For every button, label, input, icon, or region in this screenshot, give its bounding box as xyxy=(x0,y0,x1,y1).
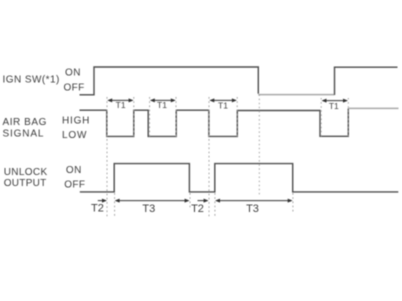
svg-text:OFF: OFF xyxy=(64,82,85,93)
dashed vertical below unlock second rise x=214.9 xyxy=(214,193,216,217)
svg-text:ON: ON xyxy=(65,67,81,78)
svg-text:IGN SW(*1): IGN SW(*1) xyxy=(3,75,60,86)
svg-text:T1: T1 xyxy=(218,100,228,110)
wire IGN SW second rise and ON level xyxy=(335,67,398,95)
svg-text:T3: T3 xyxy=(142,203,155,215)
T1 arrow 1 xyxy=(107,98,133,102)
svg-text:T1: T1 xyxy=(157,100,167,110)
svg-text:SIGNAL: SIGNAL xyxy=(3,129,45,140)
svg-text:T3: T3 xyxy=(246,203,259,215)
svg-text:T1: T1 xyxy=(116,100,126,110)
svg-text:OUTPUT: OUTPUT xyxy=(4,178,47,189)
T1 arrow 2 xyxy=(150,98,176,102)
svg-text:AIR BAG: AIR BAG xyxy=(3,117,47,128)
dashed vertical at third pulse left x=209 xyxy=(208,97,210,217)
dashed vertical at second pulse right x=176 xyxy=(175,97,177,139)
dashed vertical at second pulse left x=149.6 xyxy=(149,97,151,139)
T2 arrow 2 (inward arrow from left) xyxy=(198,199,209,203)
wire IGN SW OFF segment (gray) xyxy=(258,94,334,96)
T1 arrow 4 xyxy=(322,99,349,103)
wire UNLOCK OUTPUT waveform xyxy=(80,164,399,192)
dashed vertical below unlock rise x=114.6 xyxy=(114,193,116,217)
svg-text:T2: T2 xyxy=(191,203,204,215)
dashed vertical below unlock second drop x=292.9 xyxy=(292,193,294,212)
svg-text:ON: ON xyxy=(66,165,82,176)
dashed vertical below unlock drop x=190 xyxy=(189,193,191,209)
svg-text:T2: T2 xyxy=(91,203,104,215)
dashed vertical at first pulse left x=107 xyxy=(106,97,108,217)
dotted vertical at IGN drop x=259.3 xyxy=(258,95,260,197)
dashed vertical at first pulse right x=133.8 xyxy=(133,97,135,139)
wire AIR BAG signal waveform xyxy=(80,108,349,136)
T3 arrow 2 (double arrow) xyxy=(215,199,293,203)
svg-text:HIGH: HIGH xyxy=(62,116,90,127)
svg-text:OFF: OFF xyxy=(64,180,85,191)
dashed vertical at third pulse right x=237.2 xyxy=(236,97,238,139)
svg-text:UNLOCK: UNLOCK xyxy=(4,167,48,178)
wire IGN SW waveform dark part xyxy=(80,67,259,95)
wire AIR BAG final HIGH segment (gray) xyxy=(348,107,398,109)
T1 arrow 3 xyxy=(209,98,237,102)
dashed vertical at fourth pulse left x=321.2 xyxy=(320,98,322,138)
svg-text:LOW: LOW xyxy=(62,130,87,141)
svg-text:T1: T1 xyxy=(329,101,339,111)
T3 arrow 1 (double arrow) xyxy=(115,199,190,203)
T2 arrow 1 (inward arrow from left) xyxy=(98,199,107,203)
dashed vertical at fourth pulse right x=348.3 xyxy=(347,98,349,138)
